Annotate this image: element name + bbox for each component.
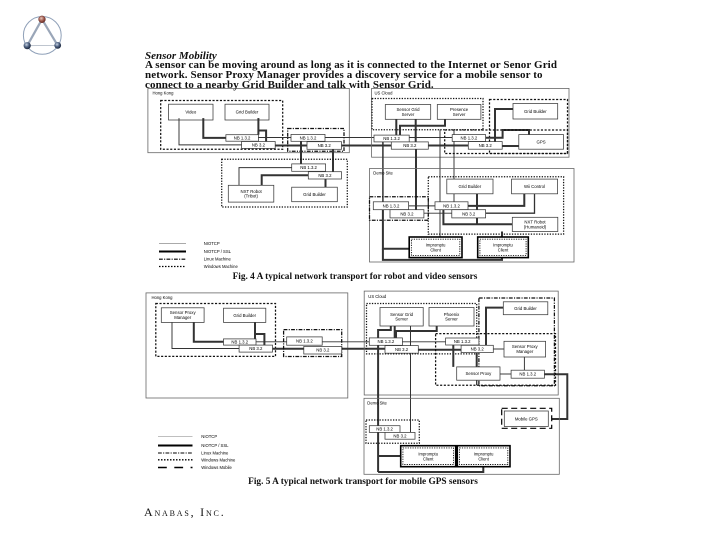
svg-text:NIOTCP / SSL: NIOTCP / SSL [201, 443, 229, 448]
svg-text:Manager: Manager [174, 315, 192, 320]
svg-text:Linux Machine: Linux Machine [204, 257, 232, 262]
svg-text:Client: Client [498, 248, 509, 253]
svg-text:NB 3.2: NB 3.2 [395, 347, 409, 352]
svg-text:Client: Client [423, 456, 434, 461]
svg-text:Video: Video [185, 110, 197, 115]
svg-text:NB 3.2: NB 3.2 [249, 346, 263, 351]
svg-text:US Cloud: US Cloud [375, 90, 394, 95]
svg-text:NIOTCP: NIOTCP [201, 434, 217, 439]
svg-text:NB 1.3.2: NB 1.3.2 [519, 372, 536, 377]
svg-text:Windows Mobile: Windows Mobile [201, 465, 232, 470]
svg-text:NB 3.2: NB 3.2 [462, 211, 476, 216]
svg-text:Demo Site: Demo Site [367, 400, 387, 405]
svg-text:NIOTCP / SSL: NIOTCP / SSL [204, 249, 232, 254]
svg-text:NB 1.3.2: NB 1.3.2 [296, 339, 313, 344]
svg-text:NB 1.3.2: NB 1.3.2 [461, 136, 478, 141]
svg-text:NB 1.3.2: NB 1.3.2 [443, 203, 460, 208]
svg-text:NB 1.3.2: NB 1.3.2 [378, 339, 395, 344]
svg-text:NB 3.2: NB 3.2 [400, 211, 414, 216]
svg-text:Wii Control: Wii Control [524, 184, 545, 189]
svg-text:Hong Kong: Hong Kong [152, 295, 174, 300]
svg-text:NB 3.2: NB 3.2 [403, 143, 417, 148]
svg-text:Hong Kong: Hong Kong [153, 90, 175, 95]
svg-text:(Humanoid): (Humanoid) [524, 224, 547, 229]
svg-text:NB 1.3.2: NB 1.3.2 [454, 339, 471, 344]
svg-text:NB 1.3.2: NB 1.3.2 [234, 136, 251, 141]
svg-text:Server: Server [453, 112, 466, 117]
svg-text:Server: Server [445, 317, 458, 322]
svg-text:Client: Client [430, 248, 441, 253]
svg-text:NB 3.2: NB 3.2 [479, 143, 493, 148]
svg-text:Server: Server [402, 112, 415, 117]
svg-text:Manager: Manager [516, 349, 534, 354]
svg-text:Grid Builder: Grid Builder [236, 110, 259, 115]
svg-text:Grid Builder: Grid Builder [459, 184, 482, 189]
svg-text:Demo Site: Demo Site [373, 171, 393, 176]
svg-text:NB 3.2: NB 3.2 [316, 348, 330, 353]
svg-text:Grid Builder: Grid Builder [233, 313, 256, 318]
svg-text:Sensor Proxy: Sensor Proxy [466, 371, 493, 376]
svg-text:NB 1.3.2: NB 1.3.2 [376, 427, 393, 432]
svg-text:GPS: GPS [537, 139, 546, 144]
svg-text:Grid Builder: Grid Builder [303, 192, 326, 197]
svg-text:Windows Machine: Windows Machine [204, 264, 239, 269]
svg-text:NB 3.2: NB 3.2 [471, 347, 485, 352]
svg-text:Grid Builder: Grid Builder [514, 306, 537, 311]
svg-text:NB 1.3.2: NB 1.3.2 [300, 165, 317, 170]
svg-text:(Tribot): (Tribot) [244, 194, 258, 199]
svg-text:US Cloud: US Cloud [368, 294, 387, 299]
svg-text:Grid Builder: Grid Builder [524, 109, 547, 114]
svg-text:Mobile GPS: Mobile GPS [515, 416, 538, 421]
svg-text:NB 1.3.2: NB 1.3.2 [383, 136, 400, 141]
svg-text:NB 1.3.2: NB 1.3.2 [383, 203, 400, 208]
svg-text:NB 3.2: NB 3.2 [318, 173, 332, 178]
svg-text:NIOTCP: NIOTCP [204, 241, 220, 246]
svg-text:Windows Machine: Windows Machine [201, 457, 236, 462]
svg-text:NB 1.3.2: NB 1.3.2 [231, 340, 248, 345]
svg-text:Server: Server [395, 317, 408, 322]
svg-text:Linux Machine: Linux Machine [201, 451, 229, 456]
svg-text:NB 3.2: NB 3.2 [252, 143, 266, 148]
svg-text:NB 1.3.2: NB 1.3.2 [300, 135, 317, 140]
svg-text:NB 3.2: NB 3.2 [393, 433, 407, 438]
svg-text:NB 3.2: NB 3.2 [318, 143, 332, 148]
svg-text:Client: Client [478, 456, 489, 461]
